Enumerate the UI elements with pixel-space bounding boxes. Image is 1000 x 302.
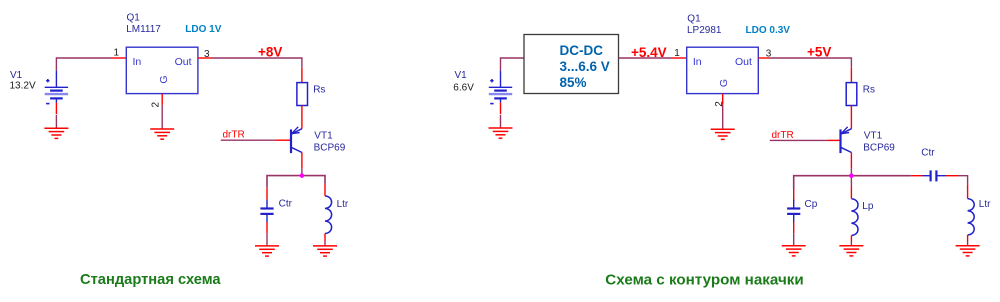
svg-text:LP2981: LP2981: [687, 25, 722, 36]
wire DC-DC output to regulator Q1 LP2981: [619, 57, 673, 59]
svg-text:6.6V: 6.6V: [453, 83, 474, 94]
regulator U1 LM1117 box: [126, 47, 198, 93]
svg-text:3...6.6 V: 3...6.6 V: [560, 59, 610, 74]
transistor VT1 BCP69 (left): [291, 127, 302, 153]
wire regulator G pin to ground (left): [161, 105, 163, 129]
svg-text:VT1: VT1: [864, 131, 883, 142]
transistor VT1 BCP69 (right): [841, 127, 852, 153]
wire inductor Ltr to ground (left): [324, 242, 326, 246]
svg-text:1: 1: [114, 48, 120, 59]
capacitor Ctr (right circuit, series): [923, 170, 946, 181]
pin 1 stub of Q1 LM1117: [112, 57, 127, 59]
svg-text:3: 3: [204, 49, 210, 60]
svg-text:85%: 85%: [560, 75, 587, 90]
svg-text:drTR: drTR: [223, 130, 245, 141]
wire pump-tank rail left part (right circuit): [794, 176, 911, 189]
pin 3 stub of Q1 LM1117: [198, 57, 211, 59]
svg-text:DC-DC: DC-DC: [560, 43, 604, 58]
wire drTR to transistor base (left): [221, 139, 276, 141]
pin 1 stub of Q1 LP2981: [672, 57, 687, 59]
ground under regulator Q1 (right): [711, 129, 735, 139]
pin stub resistor Rs top (right): [850, 68, 852, 83]
svg-text:Rs: Rs: [313, 85, 325, 96]
pin stub resistor Rs bottom to transistor emitter (right): [850, 106, 852, 129]
ground under inductor Ltr (right): [956, 246, 980, 256]
svg-text:G: G: [158, 75, 170, 83]
wire drTR to transistor base (right): [770, 139, 828, 141]
wire collector to junction node (right): [850, 169, 852, 176]
pin 2 stub of Q1 LP2981 (ground pin): [722, 94, 724, 105]
svg-text:Стандартная схема: Стандартная схема: [80, 272, 221, 288]
ground under capacitor Ctr (left): [255, 246, 279, 256]
svg-text:LDO 0.3V: LDO 0.3V: [746, 25, 791, 36]
svg-text:LDO 1V: LDO 1V: [185, 24, 221, 35]
wire capacitor Cp to ground: [793, 233, 795, 245]
svg-text:LM1117: LM1117: [126, 24, 161, 35]
svg-text:Lp: Lp: [862, 201, 874, 212]
junction node (right circuit): [849, 173, 854, 178]
ground under regulator Q1 (left): [150, 129, 174, 139]
wire battery V1 top to regulator input: [56, 58, 111, 71]
ground under inductor Lp: [839, 246, 863, 256]
svg-text:1: 1: [674, 48, 680, 59]
svg-text:BCP69: BCP69: [863, 142, 895, 153]
pin stub inductor Lp top: [850, 187, 852, 199]
pin stub resistor Rs bottom to transistor emitter (left): [301, 106, 303, 129]
pin stub transistor base (left): [276, 139, 290, 141]
pin stub capacitor Cp top: [793, 189, 795, 201]
wire battery V1 top to DC-DC input: [501, 58, 525, 71]
pin stub resistor Rs top (left): [301, 68, 303, 83]
svg-text:2: 2: [150, 102, 161, 108]
pin stub capacitor Ctr right (right circuit): [946, 175, 959, 177]
pin stub inductor Ltr top (right): [967, 185, 969, 199]
inductor Ltr (left): [325, 196, 332, 234]
svg-text:In: In: [133, 56, 142, 68]
wire inductor Lp to ground: [850, 242, 852, 246]
wire battery V1 bottom to ground (right): [500, 115, 502, 128]
ground under battery V1 (left): [44, 128, 68, 138]
svg-text:Out: Out: [735, 56, 752, 68]
wire +5V rail from regulator output to resistor Rs (right): [770, 58, 851, 68]
ground under inductor Ltr (left): [313, 246, 337, 256]
svg-text:Out: Out: [175, 56, 192, 68]
wire collector to junction node (left): [301, 169, 303, 176]
pin 3 stub of Q1 LP2981: [758, 57, 770, 59]
DC-DC converter block: [524, 35, 619, 94]
wire inductor Ltr to ground (right): [967, 242, 969, 246]
capacitor Cp: [787, 200, 800, 222]
ground under capacitor Cp: [782, 246, 806, 256]
svg-text:V1: V1: [455, 70, 468, 81]
inductor Ltr (right): [968, 199, 975, 235]
svg-text:+8V: +8V: [258, 44, 282, 59]
svg-text:VT1: VT1: [314, 131, 333, 142]
resistor Rs (right): [846, 83, 857, 106]
pin stub transistor collector (right): [850, 153, 852, 169]
battery V1 (right): [489, 71, 512, 114]
pin stub inductor Ltr top (left): [324, 184, 326, 196]
svg-text:Q1: Q1: [687, 13, 701, 24]
pin stub inductor Lp bottom: [850, 236, 852, 243]
svg-text:V1: V1: [10, 70, 23, 81]
ground under battery V1 (right): [489, 128, 513, 138]
inductor Lp: [851, 199, 858, 236]
battery V1 (left): [45, 71, 68, 114]
pin stub inductor Ltr bottom (right): [967, 235, 969, 242]
wire junction to inductor Lp: [850, 178, 852, 187]
wire capacitor Ctr to ground (left): [266, 233, 268, 246]
wire tank rail (left circuit): [267, 176, 325, 188]
pin stub capacitor Ctr left (right circuit): [911, 175, 923, 177]
wire +8V rail from regulator output to resistor Rs (left): [211, 58, 302, 68]
svg-text:Схема с контуром накачки: Схема с контуром накачки: [605, 271, 803, 288]
pin stub transistor base (right): [828, 139, 840, 141]
svg-text:13.2V: 13.2V: [10, 81, 36, 92]
svg-text:G: G: [718, 79, 730, 87]
svg-text:Ltr: Ltr: [979, 199, 991, 210]
wire battery V1 bottom to ground: [55, 115, 57, 128]
wire regulator G pin to ground (right): [722, 105, 724, 129]
svg-text:+5V: +5V: [807, 45, 831, 60]
pin 2 stub of Q1 LM1117 (ground pin): [161, 94, 163, 105]
wire capacitor Ctr to inductor Ltr (right circuit): [959, 176, 968, 185]
svg-text:Q1: Q1: [127, 13, 141, 24]
pin stub capacitor Ctr bottom (left): [266, 222, 268, 233]
svg-text:drTR: drTR: [772, 130, 794, 141]
pin stub inductor Ltr bottom (left): [324, 234, 326, 242]
pin stub capacitor Cp bottom: [793, 222, 795, 233]
svg-text:BCP69: BCP69: [314, 142, 346, 153]
junction node (left circuit): [300, 173, 305, 178]
pin stub transistor collector (left): [301, 153, 303, 169]
svg-text:In: In: [693, 56, 702, 68]
pin stub capacitor Ctr top (left): [266, 188, 268, 200]
resistor Rs (left): [297, 83, 308, 106]
svg-text:Ctr: Ctr: [279, 199, 293, 210]
svg-text:Ctr: Ctr: [921, 148, 935, 159]
svg-text:Cp: Cp: [805, 199, 818, 210]
svg-text:Rs: Rs: [863, 85, 875, 96]
svg-text:Ltr: Ltr: [337, 199, 349, 210]
regulator U2 LP2981 box: [687, 47, 759, 93]
capacitor Ctr (left): [260, 200, 273, 222]
